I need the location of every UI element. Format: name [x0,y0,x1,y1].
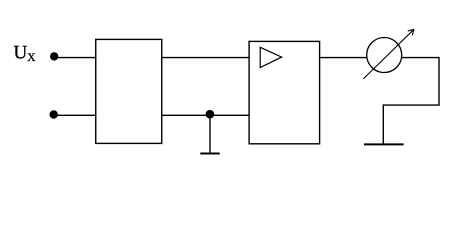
block U1 (input converter rectangle) [96,39,162,143]
wire junction to ground [209,114,211,153]
wire input 2 [54,114,97,116]
wire meter to corner [402,57,440,59]
wire input 1 [54,57,96,59]
meter P1 circle [367,38,402,73]
terminal dot input 1 [50,52,58,60]
wire bottom horizontal [383,104,439,106]
wire block1 to block2 top [162,57,249,59]
ground GND1 [200,153,219,155]
meter arrow shaft [363,29,414,79]
wire block1 to block2 bottom [162,114,249,116]
amplifier triangle symbol [260,47,281,67]
junction node dot [206,110,215,119]
terminal dot input 2 [50,110,58,118]
label Ux [14,46,35,61]
wire to ground 2 [382,104,384,144]
ground GND2 [364,143,404,145]
meter arrowhead [408,29,414,35]
wire right vertical [438,57,440,105]
wire block2 to meter [320,57,368,59]
block U2 (amplifier rectangle) [249,41,320,143]
